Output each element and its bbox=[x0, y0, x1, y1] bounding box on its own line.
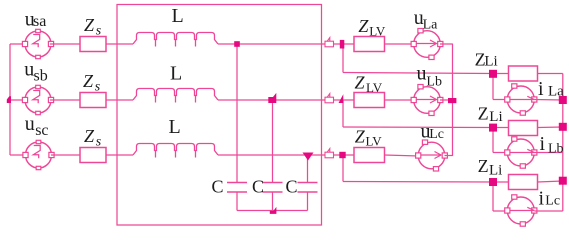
svg-text:s: s bbox=[96, 24, 102, 39]
svg-text:Lb: Lb bbox=[426, 74, 442, 89]
svg-text:Z: Z bbox=[478, 156, 489, 176]
svg-text:i: i bbox=[538, 78, 544, 100]
svg-text:LV: LV bbox=[369, 24, 386, 39]
svg-text:La: La bbox=[548, 84, 564, 100]
svg-text:sa: sa bbox=[33, 13, 46, 30]
svg-text:L: L bbox=[169, 116, 181, 138]
svg-text:La: La bbox=[423, 18, 439, 33]
svg-text:Li: Li bbox=[489, 163, 502, 179]
svg-text:Z: Z bbox=[355, 127, 366, 147]
svg-text:s: s bbox=[95, 80, 101, 95]
svg-text:L: L bbox=[172, 5, 184, 27]
svg-text:Li: Li bbox=[484, 54, 497, 70]
svg-text:Z: Z bbox=[358, 16, 369, 36]
svg-text:i: i bbox=[540, 133, 546, 155]
svg-text:i: i bbox=[539, 188, 545, 210]
svg-text:Z: Z bbox=[84, 15, 95, 35]
svg-text:Li: Li bbox=[489, 109, 502, 125]
svg-text:C: C bbox=[252, 177, 264, 197]
svg-text:L: L bbox=[170, 63, 182, 85]
svg-text:Z: Z bbox=[83, 71, 94, 91]
svg-text:u: u bbox=[25, 113, 35, 135]
svg-text:s: s bbox=[96, 135, 102, 150]
svg-text:C: C bbox=[212, 177, 224, 197]
svg-text:Z: Z bbox=[355, 72, 366, 92]
svg-text:Z: Z bbox=[84, 126, 95, 146]
svg-text:Z: Z bbox=[478, 104, 489, 124]
svg-text:Lb: Lb bbox=[548, 141, 564, 156]
svg-text:sb: sb bbox=[34, 68, 48, 85]
svg-text:Lc: Lc bbox=[545, 194, 560, 209]
svg-text:u: u bbox=[417, 63, 427, 85]
svg-text:LV: LV bbox=[366, 133, 383, 148]
svg-text:LV: LV bbox=[366, 80, 383, 95]
svg-text:sc: sc bbox=[35, 122, 48, 139]
svg-text:Lc: Lc bbox=[429, 127, 444, 142]
svg-text:C: C bbox=[286, 177, 298, 197]
